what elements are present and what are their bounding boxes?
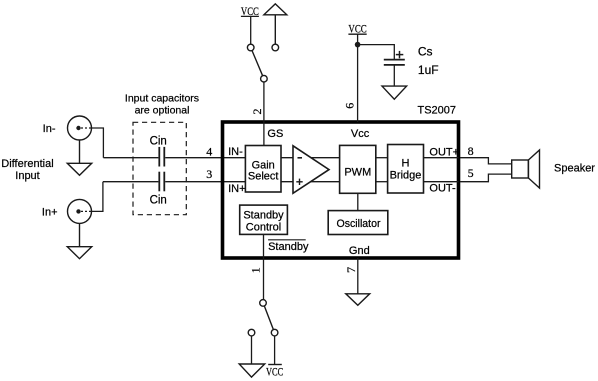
wire OUT- to speaker xyxy=(460,174,512,182)
svg-text:6: 6 xyxy=(342,103,356,109)
svg-text:Cin: Cin xyxy=(150,136,167,148)
wire IN+ line (pin 3) xyxy=(103,181,246,183)
svg-text:Control: Control xyxy=(246,222,281,234)
label Standby (with overline) xyxy=(268,240,309,253)
wire Standby Control to pin 1 xyxy=(263,234,265,299)
svg-text:GS: GS xyxy=(267,128,283,140)
wire junction to Cs xyxy=(358,45,395,59)
ground under Cs xyxy=(382,86,407,99)
block PWM xyxy=(340,145,376,193)
ground pin 7 xyxy=(346,294,370,306)
capacitor Cin (bottom) xyxy=(159,172,164,192)
svg-text:1uF: 1uF xyxy=(418,63,439,77)
svg-text:5: 5 xyxy=(468,166,474,180)
svg-text:Input: Input xyxy=(15,170,39,182)
wire In- jack to IN- line xyxy=(92,128,104,158)
connector J1 In- xyxy=(68,116,92,140)
svg-text:OUT-: OUT- xyxy=(429,183,456,195)
svg-text:Speaker: Speaker xyxy=(554,162,595,174)
svg-text:7: 7 xyxy=(344,267,358,273)
svg-text:H: H xyxy=(402,158,410,170)
svg-text:Cin: Cin xyxy=(150,195,167,207)
speaker LS1 xyxy=(512,150,540,188)
svg-text:In-: In- xyxy=(43,123,56,135)
switch SW1 (GS select) xyxy=(247,44,278,82)
svg-text:Standby: Standby xyxy=(268,241,309,253)
wires H Bridge to outputs xyxy=(424,158,459,182)
connector J2 In+ xyxy=(68,199,92,223)
wire ground throw xyxy=(251,336,253,364)
ground (bottom, down triangle) xyxy=(239,364,265,377)
svg-text:In+: In+ xyxy=(42,206,58,218)
block Standby Control xyxy=(240,205,288,234)
wire VCC to switch throw xyxy=(250,17,252,44)
svg-text:IN-: IN- xyxy=(228,146,243,158)
capacitor Cin (top) xyxy=(159,147,164,167)
svg-text:1: 1 xyxy=(248,267,262,273)
wire OUT+ to speaker xyxy=(460,158,512,164)
ground under In+ xyxy=(67,223,91,258)
svg-text:Differential: Differential xyxy=(1,158,53,170)
svg-text:PWM: PWM xyxy=(344,166,371,178)
svg-text:8: 8 xyxy=(468,144,474,158)
svg-text:Gnd: Gnd xyxy=(349,245,370,257)
dashed optional box xyxy=(133,122,186,214)
svg-text:Standby: Standby xyxy=(243,210,284,222)
power VCC (top left) xyxy=(241,4,259,18)
wire switch to pin 2 GS xyxy=(263,82,265,146)
svg-text:VCC: VCC xyxy=(266,364,283,378)
svg-text:Select: Select xyxy=(248,171,279,183)
svg-text:are optional: are optional xyxy=(135,105,190,117)
IC TS2007 outline xyxy=(223,122,459,258)
wire pin 7 to ground xyxy=(357,258,359,294)
switch SW2 (standby select) xyxy=(248,300,278,336)
wire VCC throw xyxy=(274,336,276,364)
svg-text:Input capacitors: Input capacitors xyxy=(125,93,199,105)
wires Gain Select to PWM xyxy=(281,158,340,182)
wire PWM to Oscillator xyxy=(357,193,359,210)
svg-text:3: 3 xyxy=(206,167,212,181)
svg-text:Oscillator: Oscillator xyxy=(337,218,381,230)
wire IN- line (pin 4) xyxy=(103,157,245,159)
ground under In- xyxy=(67,140,91,175)
power VCC (supply) xyxy=(348,21,366,35)
block Oscillator xyxy=(328,211,388,235)
ground (top, up triangle) xyxy=(264,4,287,44)
junction xyxy=(355,42,361,48)
wire VCC to pin 6 xyxy=(357,35,359,123)
plus sign xyxy=(396,51,404,58)
block H Bridge xyxy=(388,145,424,194)
capacitor Cs xyxy=(384,60,405,65)
svg-text:OUT+: OUT+ xyxy=(429,147,459,159)
svg-text:TS2007: TS2007 xyxy=(418,105,457,117)
wire Cs to ground xyxy=(393,65,395,86)
block Gain Select xyxy=(245,146,281,193)
power VCC (bottom) xyxy=(266,364,283,378)
svg-text:Bridge: Bridge xyxy=(390,170,422,182)
op-amp U1 xyxy=(293,146,329,194)
svg-text:Cs: Cs xyxy=(418,45,433,59)
svg-text:4: 4 xyxy=(206,144,212,158)
wires PWM to H Bridge xyxy=(376,158,388,182)
svg-text:IN+: IN+ xyxy=(228,183,245,195)
svg-text:2: 2 xyxy=(250,109,264,115)
svg-text:Vcc: Vcc xyxy=(351,128,370,140)
svg-text:VCC: VCC xyxy=(348,21,366,35)
wire In+ jack to IN+ line xyxy=(92,182,103,212)
